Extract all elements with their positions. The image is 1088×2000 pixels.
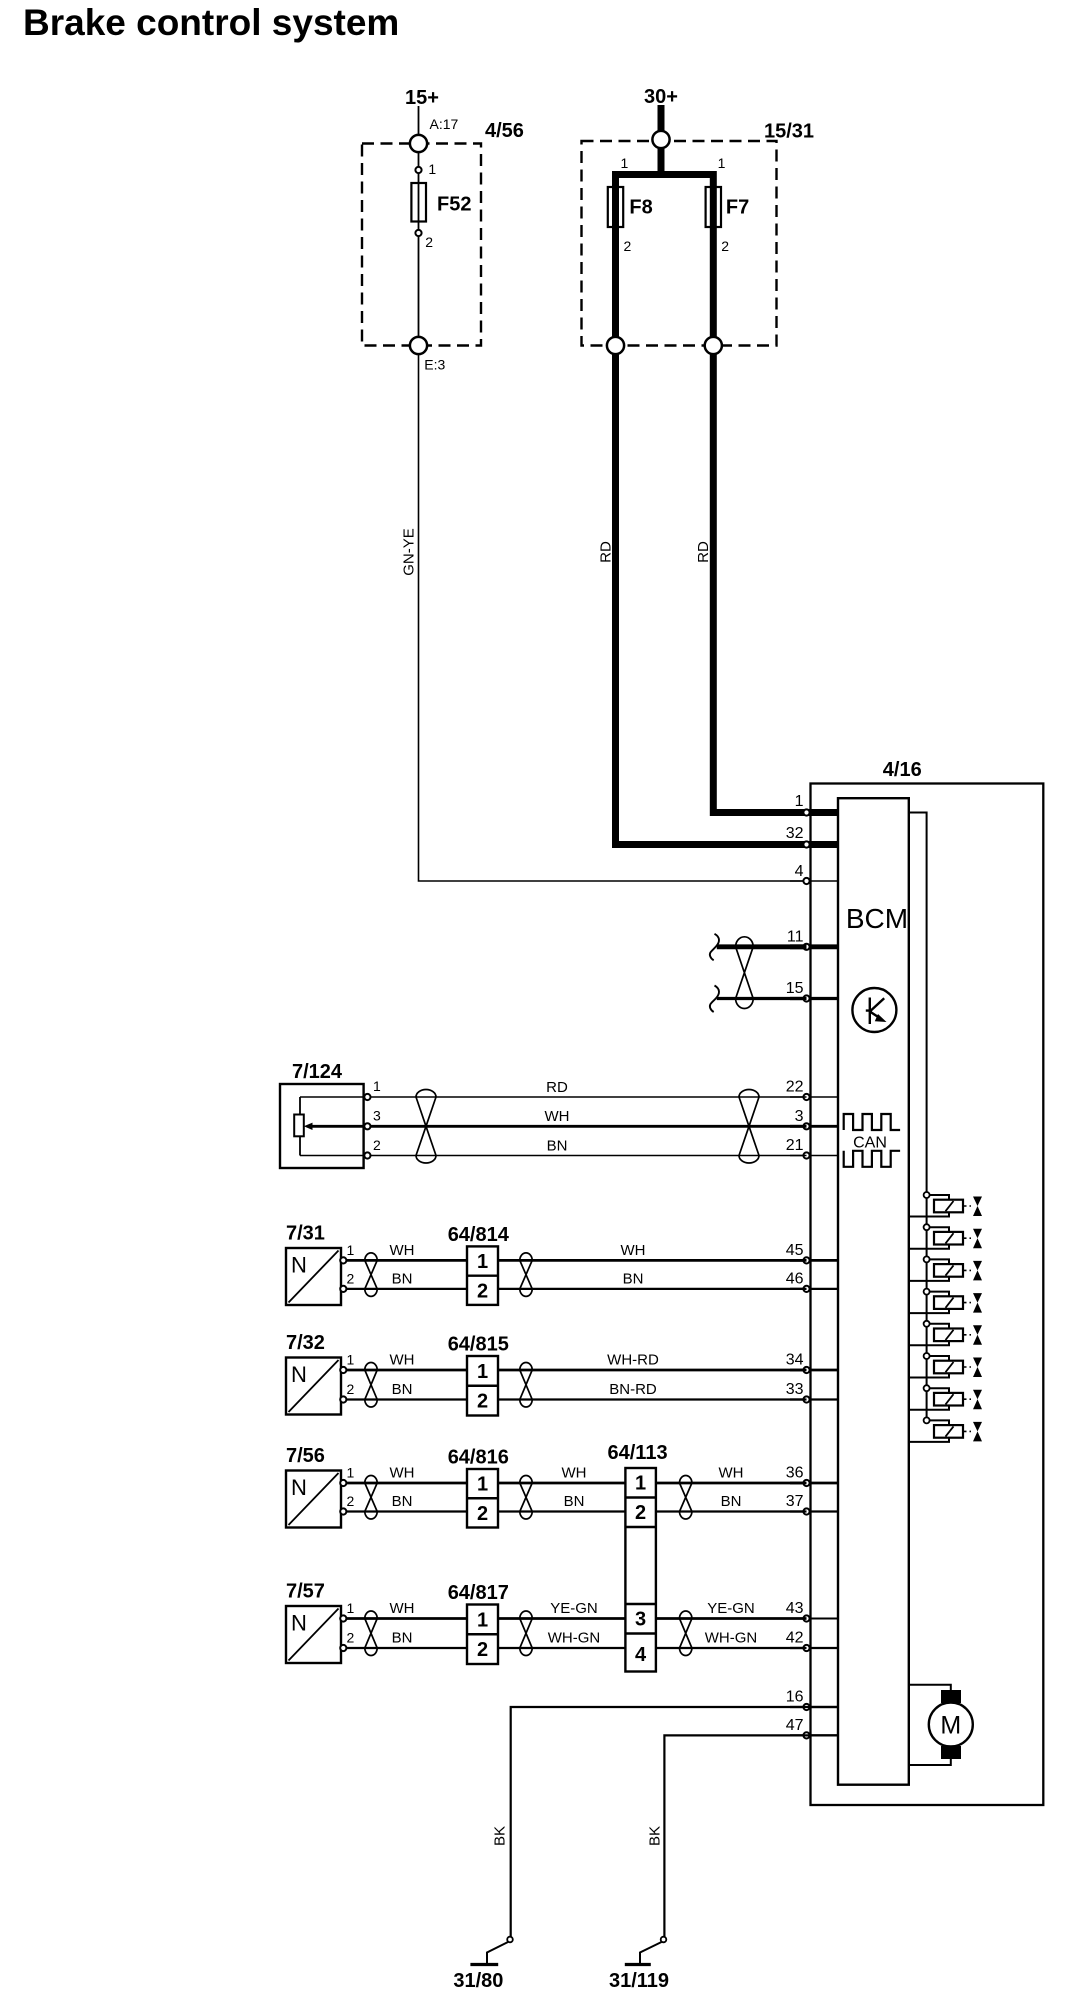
svg-text:RD: RD xyxy=(598,541,615,563)
BCM pin 15 xyxy=(790,997,838,1000)
pin 3 of 7/124 xyxy=(364,1123,370,1129)
wire GN-YE E:3 to BCM pin 4 xyxy=(419,354,807,881)
BCM pin 3 xyxy=(790,1125,838,1128)
svg-text:1: 1 xyxy=(635,1473,646,1495)
svg-text:BN-RD: BN-RD xyxy=(609,1381,657,1398)
wire RD fuse F7 branch to BCM pin 1 xyxy=(713,171,838,813)
svg-text:F52: F52 xyxy=(437,194,471,216)
svg-text:F8: F8 xyxy=(629,197,652,219)
svg-text:15/31: 15/31 xyxy=(764,121,814,143)
wire WH/WH 7/56 pin1 xyxy=(343,1482,807,1485)
svg-text:YE-GN: YE-GN xyxy=(550,1600,598,1617)
svg-text:BN: BN xyxy=(547,1137,568,1154)
wire WH/WH-RD 7/32 pin1 xyxy=(343,1369,807,1372)
svg-text:1: 1 xyxy=(373,1078,381,1094)
svg-text:7/124: 7/124 xyxy=(292,1061,343,1083)
pin 2 of 7/57 xyxy=(340,1645,346,1651)
BCM pin 37 xyxy=(790,1510,838,1512)
solenoid valve 4 xyxy=(909,1289,982,1314)
svg-text:32: 32 xyxy=(786,825,804,842)
pin 2 of 7/124 xyxy=(364,1152,370,1158)
BCM inner box xyxy=(838,798,909,1784)
svg-text:4/56: 4/56 xyxy=(485,120,524,142)
BCM pin 46 xyxy=(790,1288,838,1290)
twisted pair after 64/815 xyxy=(520,1362,532,1407)
svg-text:2: 2 xyxy=(477,1280,488,1302)
BCM pin 43 xyxy=(790,1618,838,1620)
dashed box 15/31 xyxy=(582,141,777,346)
BCM pin 11 xyxy=(790,944,838,949)
svg-text:BN: BN xyxy=(564,1493,585,1510)
svg-text:2: 2 xyxy=(347,1630,355,1646)
pin 1 of 7/124 xyxy=(364,1094,370,1100)
svg-text:3: 3 xyxy=(795,1108,804,1125)
BCM pin 21 xyxy=(790,1155,838,1157)
svg-text:2: 2 xyxy=(477,1391,488,1413)
svg-text:A:17: A:17 xyxy=(430,116,459,132)
pin 2 of 7/31 xyxy=(340,1286,346,1292)
svg-text:N: N xyxy=(291,1475,307,1500)
twisted pair after 64/113 xyxy=(680,1611,692,1656)
svg-text:31/80: 31/80 xyxy=(453,1970,503,1992)
BCM pin 33 xyxy=(790,1398,838,1400)
fuse F8 xyxy=(608,187,623,227)
svg-text:37: 37 xyxy=(786,1493,804,1510)
connector 64/816 xyxy=(467,1469,498,1528)
connector 64/815 xyxy=(467,1356,498,1416)
svg-text:4: 4 xyxy=(795,863,804,880)
svg-text:M: M xyxy=(940,1712,961,1740)
svg-text:BK: BK xyxy=(647,1826,664,1846)
svg-text:1: 1 xyxy=(718,155,726,171)
twisted pair 7/31 xyxy=(365,1253,377,1297)
svg-text:36: 36 xyxy=(786,1465,804,1482)
svg-text:BN: BN xyxy=(392,1493,413,1510)
svg-text:2: 2 xyxy=(347,1493,355,1509)
twisted pair 7/57 xyxy=(365,1611,377,1656)
svg-text:2: 2 xyxy=(373,1137,381,1153)
svg-text:1: 1 xyxy=(347,1242,355,1258)
svg-text:Brake control system: Brake control system xyxy=(23,2,399,43)
pump motor M xyxy=(909,1685,973,1765)
svg-text:1: 1 xyxy=(795,793,804,810)
connector 64/814 xyxy=(467,1246,498,1305)
svg-text:34: 34 xyxy=(786,1352,804,1369)
svg-text:4/16: 4/16 xyxy=(883,759,922,781)
wire BN/BN 7/56 pin2 xyxy=(343,1510,807,1512)
BCM pin 22 xyxy=(790,1096,838,1098)
svg-text:31/119: 31/119 xyxy=(609,1970,669,1992)
pin 2 of 7/56 xyxy=(340,1508,346,1514)
svg-text:7/32: 7/32 xyxy=(286,1332,325,1354)
wire to pin 11 xyxy=(717,944,807,949)
svg-text:E:3: E:3 xyxy=(424,357,445,373)
pin 1 of 7/56 xyxy=(340,1480,346,1486)
svg-text:2: 2 xyxy=(624,238,632,254)
wire RD fuse F8 branch to BCM pin 32 xyxy=(616,171,839,845)
svg-text:BN: BN xyxy=(392,1381,413,1398)
svg-text:1: 1 xyxy=(428,161,436,177)
svg-text:47: 47 xyxy=(786,1717,804,1734)
svg-text:1: 1 xyxy=(347,1352,355,1368)
wire BN/BN 7/31 pin2 xyxy=(343,1288,807,1290)
solenoid valve 3 xyxy=(909,1256,982,1281)
svg-text:1: 1 xyxy=(621,155,629,171)
svg-text:22: 22 xyxy=(786,1079,804,1096)
solenoid valve 2 xyxy=(909,1224,982,1249)
wire break at pin 15 wire xyxy=(710,986,719,1013)
svg-text:1: 1 xyxy=(477,1251,488,1273)
pin 1 of F52 xyxy=(415,167,421,173)
svg-text:BN: BN xyxy=(623,1271,644,1288)
valve supply bus xyxy=(909,813,927,1421)
svg-text:3: 3 xyxy=(373,1108,381,1124)
svg-text:15+: 15+ xyxy=(405,87,439,109)
svg-text:RD: RD xyxy=(546,1079,568,1096)
twisted pair after 64/814 xyxy=(520,1253,532,1297)
ground 31/119 xyxy=(625,1937,667,1965)
wire WH 7/124 pin3 to BCM pin 3 xyxy=(311,1125,807,1128)
solenoid valve 1 xyxy=(909,1192,982,1217)
connector 64/113 xyxy=(625,1468,656,1672)
fuse F7 xyxy=(706,187,721,227)
svg-text:BN: BN xyxy=(392,1271,413,1288)
svg-text:1: 1 xyxy=(477,1361,488,1383)
wire BN/BN-RD 7/32 pin2 xyxy=(343,1398,807,1400)
svg-text:64/816: 64/816 xyxy=(448,1447,509,1469)
wire 30+ stem xyxy=(616,105,714,175)
svg-text:1: 1 xyxy=(347,1465,355,1481)
svg-text:BN: BN xyxy=(721,1493,742,1510)
BCM pin 42 xyxy=(790,1647,838,1649)
svg-text:11: 11 xyxy=(787,929,804,946)
wire BK pin 16 to ground 31/80 xyxy=(511,1707,838,1937)
svg-text:BCM: BCM xyxy=(846,903,908,934)
twisted pair after 64/817 xyxy=(520,1611,532,1656)
svg-text:2: 2 xyxy=(635,1502,646,1524)
wire to pin 15 xyxy=(717,997,807,1000)
BCM pin 4 xyxy=(790,880,838,882)
svg-text:21: 21 xyxy=(786,1137,804,1154)
pin 2 of 7/32 xyxy=(340,1396,346,1402)
wheel sensor 7/31 xyxy=(286,1248,341,1305)
connector circle F8 out xyxy=(607,337,624,354)
wire break at pin 11 wire xyxy=(710,934,719,961)
solenoid valve 8 xyxy=(909,1417,982,1442)
svg-text:64/814: 64/814 xyxy=(448,1224,510,1246)
svg-text:WH: WH xyxy=(390,1465,415,1482)
dashed box 4/56 xyxy=(362,144,481,346)
svg-text:16: 16 xyxy=(786,1689,804,1706)
svg-text:YE-GN: YE-GN xyxy=(707,1600,755,1617)
svg-text:2: 2 xyxy=(347,1381,355,1397)
svg-text:7/57: 7/57 xyxy=(286,1581,325,1603)
solenoid valve 5 xyxy=(909,1321,982,1346)
svg-text:2: 2 xyxy=(347,1270,355,1286)
svg-text:42: 42 xyxy=(786,1630,804,1647)
BCM pin 32 xyxy=(790,841,838,848)
svg-text:7/31: 7/31 xyxy=(286,1223,325,1245)
pin 1 of 7/31 xyxy=(340,1257,346,1263)
twisted pair 7/56 xyxy=(365,1475,377,1519)
svg-text:1: 1 xyxy=(347,1600,355,1616)
wheel sensor 7/32 xyxy=(286,1358,341,1415)
svg-text:15: 15 xyxy=(786,980,804,997)
svg-text:WH: WH xyxy=(390,1242,415,1259)
svg-text:WH: WH xyxy=(719,1465,744,1482)
solenoid valve 7 xyxy=(909,1385,982,1410)
connector circle 30+ xyxy=(652,131,669,148)
connector A:17 xyxy=(410,135,427,152)
BCM pin 36 xyxy=(790,1482,838,1485)
svg-text:64/817: 64/817 xyxy=(448,1582,509,1604)
connector 64/817 xyxy=(467,1605,498,1665)
svg-text:N: N xyxy=(291,1253,307,1278)
svg-text:1: 1 xyxy=(477,1474,488,1496)
svg-text:WH-RD: WH-RD xyxy=(607,1352,659,1369)
sensor box 7/124 xyxy=(280,1084,364,1168)
svg-text:F7: F7 xyxy=(726,197,749,219)
pin 2 of F52 xyxy=(415,230,421,236)
wire RD 7/124 pin1 to BCM pin 22 xyxy=(300,1096,807,1098)
pin 1 of 7/57 xyxy=(340,1615,346,1621)
wire WH/YE-GN 7/57 pin1 xyxy=(343,1617,807,1620)
twisted pair after 64/816 xyxy=(520,1475,532,1519)
svg-text:43: 43 xyxy=(786,1600,804,1617)
svg-text:N: N xyxy=(291,1611,307,1636)
svg-text:33: 33 xyxy=(786,1381,804,1398)
svg-text:CAN: CAN xyxy=(853,1135,887,1152)
svg-text:WH: WH xyxy=(562,1465,587,1482)
svg-text:BK: BK xyxy=(492,1826,509,1846)
wire WH/WH 7/31 pin1 xyxy=(343,1259,807,1262)
BCM pin 47 xyxy=(790,1734,838,1736)
svg-text:WH-GN: WH-GN xyxy=(705,1630,758,1647)
twisted pair after 64/113 xyxy=(680,1475,692,1519)
svg-text:WH: WH xyxy=(621,1242,646,1259)
svg-text:64/113: 64/113 xyxy=(608,1442,668,1464)
wheel sensor 7/56 xyxy=(286,1471,341,1528)
svg-text:4: 4 xyxy=(635,1644,647,1666)
BCM pin 34 xyxy=(790,1369,838,1372)
svg-text:BN: BN xyxy=(392,1630,413,1647)
twisted wires 7/124 left xyxy=(416,1090,436,1164)
wire BK pin 47 to ground 31/119 xyxy=(664,1735,838,1936)
connector E:3 xyxy=(410,337,427,354)
control module outer box 4/16 xyxy=(811,784,1044,1806)
svg-text:GN-YE: GN-YE xyxy=(401,528,418,576)
svg-text:WH-GN: WH-GN xyxy=(548,1630,601,1647)
svg-text:N: N xyxy=(291,1362,307,1387)
wire BN/WH-GN 7/57 pin2 xyxy=(343,1647,807,1649)
svg-text:7/56: 7/56 xyxy=(286,1445,325,1467)
svg-text:2: 2 xyxy=(477,1503,488,1525)
svg-text:1: 1 xyxy=(477,1609,488,1631)
CAN transceiver symbol xyxy=(844,1114,900,1167)
BCM pin 16 xyxy=(790,1706,838,1708)
svg-text:2: 2 xyxy=(477,1639,488,1661)
pin 1 of 7/32 xyxy=(340,1367,346,1373)
pump symbol K xyxy=(852,988,896,1032)
svg-text:2: 2 xyxy=(425,234,433,250)
wheel sensor 7/57 xyxy=(286,1606,341,1663)
svg-text:RD: RD xyxy=(695,541,712,563)
svg-text:WH: WH xyxy=(545,1108,570,1125)
twisted wires 7/124 right xyxy=(739,1090,759,1164)
svg-text:64/815: 64/815 xyxy=(448,1334,509,1356)
solenoid valve 6 xyxy=(909,1353,982,1378)
svg-text:46: 46 xyxy=(786,1271,804,1288)
svg-text:30+: 30+ xyxy=(644,86,678,108)
svg-text:2: 2 xyxy=(721,238,729,254)
wire 15+ stem xyxy=(418,106,420,135)
twisted pair 7/32 xyxy=(365,1362,377,1407)
ground 31/80 xyxy=(470,1937,512,1965)
wire BN 7/124 pin2 to BCM pin 21 xyxy=(300,1155,807,1157)
svg-text:45: 45 xyxy=(786,1242,804,1259)
connector circle F7 out xyxy=(705,337,722,354)
svg-text:3: 3 xyxy=(635,1609,646,1631)
svg-text:WH: WH xyxy=(390,1352,415,1369)
fuse F52 xyxy=(411,183,426,222)
wire F52 internal (pin1-fuse-pin2) xyxy=(418,152,420,337)
BCM pin 45 xyxy=(790,1259,838,1262)
svg-text:WH: WH xyxy=(390,1600,415,1617)
BCM pin 1 xyxy=(790,809,838,816)
twisted pair pins 11/15 xyxy=(736,937,754,1009)
